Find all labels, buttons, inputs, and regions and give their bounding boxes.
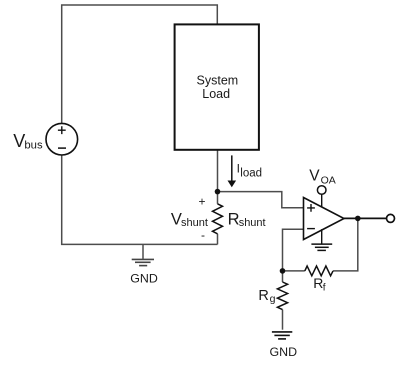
resistor Rshunt bbox=[213, 204, 223, 234]
svg-text:V: V bbox=[309, 168, 320, 185]
wire op-amp minus input to feedback node bbox=[283, 229, 304, 271]
label Iload bbox=[237, 162, 262, 180]
node shunt top junction bbox=[215, 189, 221, 195]
svg-text:GND: GND bbox=[130, 271, 158, 285]
voltage source Vbus bbox=[46, 123, 78, 155]
wire load bottom to shunt node bbox=[217, 150, 219, 204]
resistor Rg bbox=[277, 282, 287, 310]
resistor Rf bbox=[305, 266, 333, 276]
wire shunt bottom bbox=[217, 234, 219, 245]
wire Rg to ground bbox=[282, 271, 284, 330]
supply VOA pin and terminal bbox=[317, 186, 326, 208]
label Vshunt with polarity bbox=[171, 195, 208, 243]
ground GND right bbox=[270, 332, 298, 359]
svg-text:shunt: shunt bbox=[239, 217, 266, 229]
label Rg bbox=[258, 288, 275, 305]
wire top bus Vbus to load bbox=[62, 5, 218, 123]
wire op-amp output to terminal bbox=[344, 217, 387, 219]
svg-text:g: g bbox=[270, 293, 276, 305]
current arrow Iload bbox=[228, 155, 237, 187]
node output junction bbox=[355, 216, 361, 222]
svg-text:GND: GND bbox=[270, 345, 298, 359]
svg-text:f: f bbox=[323, 283, 326, 294]
svg-text:R: R bbox=[258, 288, 268, 304]
output terminal bbox=[387, 214, 395, 222]
label Rshunt bbox=[228, 211, 266, 229]
svg-text:System: System bbox=[197, 74, 239, 88]
wire feedback node to Rf and up to output node bbox=[283, 218, 358, 271]
System Load box bbox=[175, 24, 259, 149]
svg-text:load: load bbox=[240, 168, 262, 180]
op-amp U1 bbox=[304, 198, 345, 240]
svg-text:OA: OA bbox=[321, 174, 336, 186]
svg-text:Load: Load bbox=[202, 87, 230, 101]
svg-text:bus: bus bbox=[24, 140, 43, 152]
label VOA bbox=[309, 168, 336, 187]
wire shunt node to op-amp plus input bbox=[218, 192, 304, 208]
label Rf bbox=[313, 275, 326, 293]
node feedback junction bbox=[280, 268, 286, 274]
ground GND left bbox=[130, 244, 158, 285]
svg-text:+: + bbox=[199, 195, 206, 209]
label Vbus bbox=[13, 131, 43, 152]
ground op-amp negative supply bbox=[311, 229, 332, 250]
wire Vbus bottom to ground bus bbox=[62, 155, 218, 244]
svg-text:-: - bbox=[201, 228, 205, 242]
